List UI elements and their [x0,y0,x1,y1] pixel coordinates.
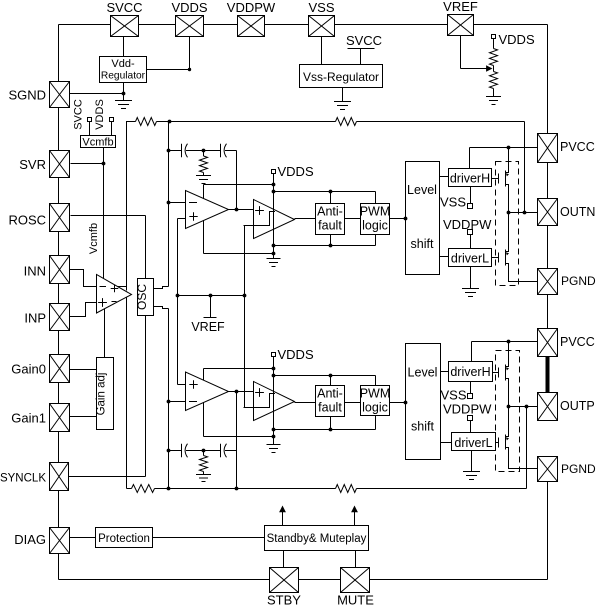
svg-text:driverH: driverH [450,365,490,379]
svg-text:ROSC: ROSC [8,213,46,228]
svg-text:driverL: driverL [451,252,489,266]
svg-text:SVCC: SVCC [346,33,382,48]
svg-text:Vcmfb: Vcmfb [82,137,113,149]
svg-text:VSS: VSS [440,195,466,210]
svg-text:PVCC: PVCC [560,140,595,154]
svg-text:MUTE: MUTE [337,593,374,608]
svg-text:STBY: STBY [267,593,301,608]
svg-text:SVR: SVR [19,157,46,172]
svg-text:OSC: OSC [135,284,149,310]
svg-text:SVCC: SVCC [73,99,85,130]
svg-text:Gain adj: Gain adj [96,373,108,416]
svg-text:Protection: Protection [98,533,150,545]
svg-text:VDDS: VDDS [94,99,106,130]
svg-text:Standby& Muteplay: Standby& Muteplay [267,533,367,545]
svg-text:PWM: PWM [360,205,391,219]
svg-text:VSS: VSS [440,388,466,403]
svg-text:driverL: driverL [454,436,492,450]
svg-text:INP: INP [24,311,46,326]
svg-text:Level: Level [408,366,438,380]
svg-text:Anti-: Anti- [317,205,343,219]
svg-text:VDDS: VDDS [278,164,314,179]
svg-text:Anti-: Anti- [317,387,343,401]
svg-text:VSS: VSS [308,0,334,15]
svg-text:SVCC: SVCC [106,0,142,15]
svg-text:fault: fault [318,401,342,415]
svg-text:INN: INN [24,264,46,279]
svg-text:PVCC: PVCC [560,335,595,349]
svg-text:VREF: VREF [443,0,478,14]
svg-text:OUTP: OUTP [560,399,595,413]
svg-text:Regulator: Regulator [101,71,146,82]
svg-text:Vss-Regulator: Vss-Regulator [303,70,379,84]
svg-text:DIAG: DIAG [14,532,46,547]
svg-text:shift: shift [411,237,434,251]
svg-text:VREF: VREF [191,320,225,334]
svg-text:Level: Level [407,183,437,197]
svg-text:SYNCLK: SYNCLK [0,473,46,485]
svg-text:PGND: PGND [561,274,596,288]
svg-text:Vcmfb: Vcmfb [88,223,100,254]
svg-text:Gain0: Gain0 [11,362,46,377]
svg-text:VDDS: VDDS [171,0,207,15]
svg-text:Vdd-: Vdd- [111,58,135,70]
svg-text:logic: logic [362,219,388,233]
svg-text:Gain1: Gain1 [11,411,46,426]
svg-text:fault: fault [318,219,342,233]
svg-text:VDDS: VDDS [278,347,314,362]
svg-text:driverH: driverH [450,172,490,186]
svg-text:PGND: PGND [561,462,596,476]
svg-text:VDDPW: VDDPW [443,402,492,417]
svg-text:shift: shift [411,420,434,434]
svg-text:PWM: PWM [360,387,391,401]
svg-text:SGND: SGND [8,88,46,103]
svg-text:VDDPW: VDDPW [227,0,276,15]
svg-text:VDDS: VDDS [499,32,535,47]
svg-text:logic: logic [362,401,388,415]
svg-text:OUTN: OUTN [560,205,595,219]
